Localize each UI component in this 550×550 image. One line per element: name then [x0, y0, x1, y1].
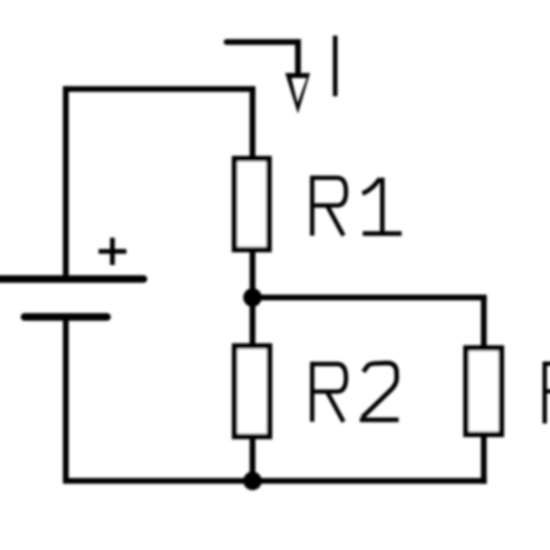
label R3 (partial, clipped at right edge) : glyph R: [545, 362, 550, 424]
wire: battery positive to top-left corner (left vertical): [63, 86, 69, 279]
wire: top horizontal from battery branch to R1 branch: [63, 86, 255, 92]
wire: battery negative down to bottom wire: [63, 317, 69, 481]
label R2 : glyph R: [312, 362, 346, 422]
wire: R1 bottom to node A: [250, 249, 256, 298]
wire: R3 bottom to bottom wire: [481, 433, 487, 484]
wire: down from top wire to R1 top: [250, 89, 256, 160]
wire: bottom horizontal return wire: [63, 478, 487, 484]
resistor R3 (body, right branch): [466, 348, 501, 434]
battery V1 positive plate (long): [0, 275, 144, 283]
resistor R2 (body): [235, 346, 270, 437]
current arrow I (hook wire): [227, 42, 299, 72]
wire: right branch down to R3 top: [481, 298, 487, 350]
battery V1 negative plate (short): [25, 313, 108, 321]
label R1 : glyph R: [312, 176, 346, 236]
node B (bottom junction dot): [243, 472, 262, 491]
wire: node A to R2 top: [250, 298, 256, 348]
label I (current): [333, 36, 338, 97]
label R1 : glyph 1: [362, 178, 401, 234]
current arrow I (open arrowhead): [285, 73, 310, 114]
wire: R2 bottom to node B: [250, 435, 256, 481]
label R2 : glyph 2: [360, 363, 399, 420]
wire: node A to right branch (horizontal): [253, 295, 487, 301]
node A (junction dot between R1, R2, R3 branch): [243, 288, 262, 307]
battery polarity + sign: [99, 238, 127, 265]
resistor R1 (body): [235, 159, 270, 250]
